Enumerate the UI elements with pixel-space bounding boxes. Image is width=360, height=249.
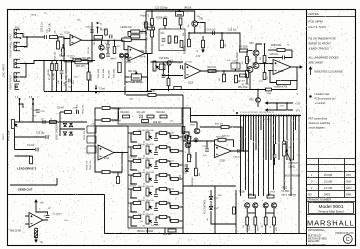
wire pot bottom drop xyxy=(283,156,285,190)
trimmer TRL1 xyxy=(87,126,96,133)
wire fx diode link xyxy=(210,201,212,206)
svg-text:J2: J2 xyxy=(44,13,46,15)
wire fx bottom rail xyxy=(183,185,236,187)
svg-text:R13 100k: R13 100k xyxy=(103,68,105,78)
ground rail xyxy=(44,91,152,93)
svg-text:R4x 4k7 R5x 10k: R4x 4k7 R5x 10k xyxy=(138,200,155,202)
connector pin 24 xyxy=(298,115,300,117)
wire right edge drop xyxy=(298,230,300,234)
supply +Ve arrow xyxy=(35,200,37,204)
svg-text:R41 4k7: R41 4k7 xyxy=(130,158,137,160)
pin x1a stub xyxy=(19,99,21,122)
wire R69 riser xyxy=(62,44,64,48)
svg-text:1 2 3 4 5 6 7 8 9 10 11 12 13: 1 2 3 4 5 6 7 8 9 10 11 12 13 14 15 16 1… xyxy=(240,112,274,114)
svg-text:BLETCHLEY: BLETCHLEY xyxy=(308,236,322,238)
svg-text:+17V: +17V xyxy=(295,103,301,105)
wire trimmer drop xyxy=(235,69,237,71)
junction marker TR16 xyxy=(194,138,198,142)
svg-text:R43 4k7: R43 4k7 xyxy=(130,186,137,188)
EQ band 2 wire xyxy=(131,147,137,156)
EQ block outline xyxy=(128,126,183,228)
transistor TR4 xyxy=(247,67,253,73)
wire lead bottom xyxy=(15,155,32,157)
svg-text:TR4: TR4 xyxy=(252,64,257,66)
capacitor C1B 10u xyxy=(69,79,71,83)
svg-text:g: g xyxy=(185,152,186,154)
EQ band 1 wire xyxy=(131,133,137,142)
svg-text:R5x 470k: R5x 470k xyxy=(238,87,248,89)
EQ band 6 left stub xyxy=(128,202,133,204)
connector pin 9 xyxy=(260,115,262,117)
node IC3A out xyxy=(121,152,123,154)
svg-text:TR11 27k: TR11 27k xyxy=(90,160,92,170)
svg-text:VR6-11: 5k00W: VR6-11: 5k00W xyxy=(137,231,154,233)
resistor R45 on rail xyxy=(182,127,185,134)
bus drop wire 6 xyxy=(253,116,255,196)
resistor R9 rear xyxy=(51,64,54,71)
svg-text:C26 10u: C26 10u xyxy=(270,54,279,56)
wire mid drop x215 xyxy=(214,186,216,234)
svg-text:10k: 10k xyxy=(171,133,174,135)
rear drop c2 xyxy=(61,74,63,91)
title block line a xyxy=(307,201,356,203)
EQ band 1 right stub xyxy=(167,133,171,137)
wire TR17 up rail xyxy=(191,116,198,123)
diode D12 xyxy=(185,168,188,171)
svg-text:ALL UNMARKED DIODES: ALL UNMARKED DIODES xyxy=(309,56,339,60)
EQ band 5 resistor A xyxy=(133,188,141,191)
EQ band 3 wire xyxy=(131,161,137,170)
svg-text:BACK TANDEM: BACK TANDEM xyxy=(284,175,300,178)
wire jack J3 out xyxy=(20,61,44,64)
svg-text:RHYTHM DRIVE: RHYTHM DRIVE xyxy=(125,82,143,84)
transistor TR8 small xyxy=(167,61,171,65)
wire R8d drop xyxy=(117,172,119,176)
wire R12b down xyxy=(151,37,153,44)
FET bottom at 247.2 xyxy=(246,225,248,234)
svg-text:TR17: TR17 xyxy=(190,125,196,127)
svg-text:13.1.88: 13.1.88 xyxy=(324,187,333,190)
svg-text:ARE 1N4007: ARE 1N4007 xyxy=(309,61,324,65)
wire fb right xyxy=(131,39,146,41)
wire bus feed xyxy=(182,108,191,116)
svg-text:NE1B: NE1B xyxy=(31,15,37,17)
bus drop wire 22 xyxy=(298,116,300,230)
svg-text:10k: 10k xyxy=(171,161,174,163)
svg-text:MAIN: MAIN xyxy=(289,159,295,162)
wire R9 out xyxy=(140,31,146,33)
resistor R27 xyxy=(240,74,247,77)
revision table line 5 xyxy=(307,184,356,186)
eq feed wire xyxy=(126,94,148,96)
rear drop a xyxy=(51,61,53,64)
FET TR1B xyxy=(245,203,250,208)
op-amp IC1B xyxy=(128,46,145,61)
svg-text:MID: MID xyxy=(276,227,278,231)
bus drop wire 20 xyxy=(293,116,295,160)
EQ band 6 resistor A xyxy=(133,202,141,205)
resistor R31 lead xyxy=(65,111,72,114)
EQ band 6 right stub xyxy=(167,203,171,207)
wire R68 riser xyxy=(57,37,59,41)
wire R25 drop xyxy=(223,71,225,74)
wire fb right xyxy=(88,22,92,62)
transistor TR15 xyxy=(185,142,191,148)
wire IC2B inv xyxy=(268,70,273,72)
junction rear jacks xyxy=(25,63,27,65)
resistor R47 470k xyxy=(221,126,229,129)
EQ band 3 resistor A xyxy=(133,160,141,163)
EQ band 2 capacitor xyxy=(154,152,158,154)
wire R4 out xyxy=(248,50,253,52)
svg-text:FX: FX xyxy=(180,175,182,178)
svg-text:DRAWING NUMBER: DRAWING NUMBER xyxy=(308,198,332,201)
resistor R10 rear xyxy=(55,64,58,71)
svg-text:Includes inter-: Includes inter- xyxy=(315,93,331,96)
resistor R26 xyxy=(235,75,238,83)
EQ band 5 pot xyxy=(146,188,152,196)
transistor TR17 xyxy=(194,128,200,134)
svg-text:DATE: DATE xyxy=(324,194,331,197)
resistor R12 drop xyxy=(151,19,154,26)
wire R50 link xyxy=(188,144,190,154)
svg-text:INDICATES CLOCKWISE: INDICATES CLOCKWISE xyxy=(315,71,343,74)
wire fet mid link b xyxy=(266,212,274,214)
svg-text:41 TR3: 41 TR3 xyxy=(242,84,250,86)
svg-text:R35 1k5: R35 1k5 xyxy=(163,234,172,236)
svg-text:C30 0.1u: C30 0.1u xyxy=(42,22,44,32)
EQ band 6 pot xyxy=(146,202,152,210)
svg-text:C15 2u2: C15 2u2 xyxy=(228,30,237,32)
pin x2 b xyxy=(32,103,34,105)
svg-text:10u: 10u xyxy=(74,77,77,79)
wire R9 in xyxy=(128,32,131,37)
svg-text:1M: 1M xyxy=(124,37,127,39)
svg-text:PCB: 09P40: PCB: 09P40 xyxy=(309,20,324,24)
svg-text:IC1-2.3- TL072: IC1-2.3- TL072 xyxy=(309,25,327,29)
lead input wire xyxy=(15,121,61,123)
connector pin 23 xyxy=(295,115,297,117)
wire jack J2 riser xyxy=(20,37,27,47)
wire IC1A fb drop xyxy=(63,39,65,62)
resistor R22 mesh xyxy=(263,56,266,63)
resistor R51 10k xyxy=(188,136,191,144)
svg-text:27k: 27k xyxy=(92,124,95,126)
svg-text:R1/2 BALANCE: R1/2 BALANCE xyxy=(236,52,239,68)
lead input wire b xyxy=(60,121,87,123)
svg-text:R68 10k: R68 10k xyxy=(55,51,57,60)
schematic bottom rail xyxy=(105,233,307,235)
resistor R9 lead xyxy=(131,30,140,33)
EQ band 3 right stub xyxy=(167,161,171,165)
pin x2 a xyxy=(32,98,34,100)
inter-pcb connector bus xyxy=(191,115,302,117)
lead mesh h4 xyxy=(15,149,36,151)
resistor R55 xyxy=(246,217,249,225)
wire rail drop b xyxy=(286,103,288,110)
svg-text:5k: 5k xyxy=(143,184,145,186)
node clip xyxy=(114,39,116,41)
svg-text:1k: 1k xyxy=(267,77,269,79)
EQ band 3 wire b xyxy=(156,161,159,166)
node top bus junction xyxy=(151,10,153,12)
revision table line 6 xyxy=(307,190,356,192)
op-amp IC2A xyxy=(185,64,201,79)
svg-text:R14 100k: R14 100k xyxy=(109,70,111,78)
svg-text:TRL3 47k: TRL3 47k xyxy=(77,104,79,114)
svg-text:25.8.88: 25.8.88 xyxy=(324,174,333,177)
revision table line 4 xyxy=(307,177,356,179)
power -17V arrow small xyxy=(202,48,204,52)
wire mesh v2b xyxy=(264,63,266,72)
wire rhythm top rail xyxy=(151,61,184,63)
jack J3 rear xyxy=(14,59,21,67)
svg-text:*: * xyxy=(237,119,238,121)
rear drop a2 xyxy=(51,71,53,91)
svg-text:R2d 2k2: R2d 2k2 xyxy=(157,112,166,114)
svg-text:4k7: 4k7 xyxy=(242,61,244,64)
bus drop wire 16 xyxy=(278,116,280,160)
FET drop at 265.7 xyxy=(265,208,267,217)
EQ band 3 resistor C xyxy=(171,164,179,167)
wire pin stub xyxy=(97,28,99,34)
resistor R19c xyxy=(167,78,170,86)
svg-text:TRL1 27k: TRL1 27k xyxy=(84,130,86,140)
wire C26 in xyxy=(268,57,282,59)
svg-text:5k: 5k xyxy=(143,156,145,158)
svg-text:3k0Hz: 3k0Hz xyxy=(130,198,136,200)
connector pin 6 xyxy=(253,115,255,117)
svg-text:R48 2k2: R48 2k2 xyxy=(222,136,230,138)
model number box xyxy=(309,203,354,214)
EQ band 7 capacitor xyxy=(154,222,158,224)
transistor TR1 xyxy=(192,21,198,27)
EQ band 1 wire b xyxy=(156,133,159,138)
EQ band 1 capacitor xyxy=(154,138,158,140)
wire C26 out xyxy=(285,50,292,58)
svg-text:R67 47K: R67 47K xyxy=(76,66,85,68)
bus drop wire 14 xyxy=(273,116,275,190)
op-amp IC3A xyxy=(98,145,114,160)
diode D8 xyxy=(69,132,72,135)
EQ band 6 resistor B xyxy=(159,202,167,205)
svg-text:TREB: TREB xyxy=(249,225,251,231)
svg-text:From *2: From *2 xyxy=(141,15,150,18)
svg-text:R5A 470k: R5A 470k xyxy=(277,86,288,89)
EQ band 7 right stub xyxy=(167,217,171,221)
title block line c xyxy=(307,227,356,229)
wire TR2-TR3 link xyxy=(255,56,257,63)
junction jack J1 xyxy=(20,37,22,39)
resistor R6 pre xyxy=(105,29,108,35)
svg-text:OUTPUT: OUTPUT xyxy=(289,163,299,165)
wire fx diode chain xyxy=(210,190,212,196)
wire D12 stub xyxy=(186,164,188,168)
rear chan wire xyxy=(44,60,73,62)
resistor R38 27k xyxy=(148,94,156,97)
copyright symbol circle xyxy=(343,235,352,244)
bus drop wire 5 xyxy=(250,116,252,140)
wire mid rail xyxy=(151,89,267,91)
resistor R6B 1M xyxy=(102,107,110,110)
svg-text:PRODUCTS LTD.: PRODUCTS LTD. xyxy=(335,233,354,235)
EQ band 6 wire b xyxy=(156,203,159,208)
capacitor C12 in box xyxy=(162,39,166,41)
lead mesh h2 xyxy=(60,128,85,130)
revision table line 3 xyxy=(307,171,356,173)
pot VR1 rhythm xyxy=(131,72,141,80)
capacitor C5a xyxy=(106,45,110,47)
wire -17V rail xyxy=(266,109,294,111)
resistor R49 xyxy=(195,168,198,176)
EQ band 2 right stub xyxy=(167,147,171,151)
capacitor C20 xyxy=(76,110,78,114)
capacitor C22 xyxy=(36,148,38,152)
pin marker 4 xyxy=(97,27,99,29)
wire C31 v xyxy=(206,141,208,148)
transistor TR16b xyxy=(184,135,188,139)
FET drop at 247.2 xyxy=(246,208,248,217)
svg-text:R4x 4k7 R5x 10k: R4x 4k7 R5x 10k xyxy=(138,158,155,160)
supply cap up xyxy=(36,212,48,215)
trimmer VR2 box xyxy=(159,64,165,70)
pin x1b stub xyxy=(20,104,24,108)
wire R13 drop xyxy=(164,26,166,30)
pin 8 gnd xyxy=(95,92,97,94)
svg-text:4m 4R: 4m 4R xyxy=(141,33,148,35)
clip pair circle b xyxy=(124,53,128,57)
transistor TR6 clip xyxy=(99,45,104,50)
title block line b xyxy=(307,214,356,216)
EQ bottom stub b xyxy=(164,228,166,234)
EQ band 5 rail stub xyxy=(178,192,183,194)
feedback mid wire xyxy=(95,119,102,121)
note bullet xyxy=(309,95,311,97)
lead mesh h3 xyxy=(15,136,46,138)
bus drop wire 12 xyxy=(268,116,270,196)
wire R3 riser xyxy=(188,33,190,39)
wire R64 to IC1A xyxy=(58,37,71,39)
connector pin 16 xyxy=(278,115,280,117)
svg-text:IC3B: IC3B xyxy=(220,160,226,162)
svg-text:R12 100k: R12 100k xyxy=(98,68,100,78)
pot VR10A xyxy=(176,10,184,17)
wire rhythm drop r3 xyxy=(168,86,170,91)
wire R6d right xyxy=(110,153,122,173)
wire clip link xyxy=(107,48,109,53)
wire fx left drop xyxy=(235,190,237,234)
revision col 1 xyxy=(318,159,320,198)
EQ right rail xyxy=(182,126,184,228)
EQ band 7 resistor A xyxy=(133,216,141,219)
FET TR18 xyxy=(271,203,276,208)
pin marker 3 xyxy=(97,22,99,24)
node mesh a xyxy=(264,43,266,45)
svg-text:REAR INPUT: REAR INPUT xyxy=(10,75,13,90)
svg-text:IC1B: IC1B xyxy=(125,59,131,61)
svg-text:R47 47k: R47 47k xyxy=(215,124,224,126)
capacitor C21 xyxy=(46,135,48,139)
svg-text:*8: *8 xyxy=(287,45,289,47)
op-amp IC3B xyxy=(215,145,232,158)
wire TR17 feed xyxy=(196,122,198,128)
svg-text:1k5: 1k5 xyxy=(176,233,179,235)
trimmer T1 box xyxy=(231,63,240,69)
bus drop wire 19 xyxy=(290,116,292,196)
svg-text:C4B: C4B xyxy=(64,81,66,86)
rear drop d xyxy=(65,61,67,92)
wire IC3B fb xyxy=(215,140,219,146)
svg-text:Preamp Main Board: Preamp Main Board xyxy=(319,209,344,213)
transistor TR7 clip xyxy=(99,53,104,58)
svg-text:C25 1k: C25 1k xyxy=(88,46,90,54)
wire mid rail right xyxy=(272,89,298,91)
EQ band 4 resistor A xyxy=(133,174,141,177)
wire fb bottom xyxy=(64,61,75,63)
junction front jacks xyxy=(26,36,28,38)
capacitor C11d xyxy=(140,115,142,119)
supply +Ve wire xyxy=(35,204,37,213)
svg-text:LEVEL: LEVEL xyxy=(289,167,297,169)
svg-text:R4x 4k7 R5x 10k: R4x 4k7 R5x 10k xyxy=(138,144,155,146)
wire TR5 up xyxy=(257,90,259,98)
connector pin 10 xyxy=(263,115,265,117)
FET gate resistor b xyxy=(267,195,274,198)
svg-text:LEAD TANDEM: LEAD TANDEM xyxy=(56,124,59,140)
power +17V arrow xyxy=(266,102,271,104)
wire R49 drop xyxy=(195,152,197,168)
resistor R20 mesh xyxy=(246,57,249,64)
svg-text:C10 10u: C10 10u xyxy=(36,133,45,135)
svg-text:F,B ON TANDEM POTS: F,B ON TANDEM POTS xyxy=(309,37,336,41)
wire mesh v1 xyxy=(246,51,248,57)
pin 7 gnd xyxy=(95,88,97,90)
wire IC2B inputs xyxy=(259,63,273,65)
svg-text:C30 2u0: C30 2u0 xyxy=(233,156,242,158)
svg-text:VR2: VR2 xyxy=(147,37,149,41)
wire R6d loop xyxy=(95,156,102,173)
node R25 top xyxy=(223,70,225,72)
EQ band 7 resistor B xyxy=(159,216,167,219)
svg-text:1n: 1n xyxy=(105,43,107,45)
resistor R53 mid xyxy=(266,88,272,91)
bus drop wire 3 xyxy=(245,116,247,190)
rhythm drop x147 xyxy=(147,56,149,66)
capacitor C18 xyxy=(36,110,40,112)
capacitor C30 xyxy=(44,35,46,39)
lead mesh v x60 xyxy=(59,112,61,136)
jack J4 rear xyxy=(14,73,21,81)
connector pin 22 xyxy=(293,115,295,117)
supply box top xyxy=(8,194,105,196)
wire R43 out xyxy=(285,49,292,51)
resistor R69 bias xyxy=(62,48,65,56)
rear drop b2 xyxy=(56,71,58,91)
bus drop wire 11 xyxy=(265,116,267,160)
svg-text:C15 10u: C15 10u xyxy=(185,62,192,64)
supply box right xyxy=(104,195,106,234)
EQ band 1 pot xyxy=(146,132,152,140)
eq right rail upper xyxy=(182,95,184,126)
lead diode stubs xyxy=(65,128,71,130)
bus drop wire 1 xyxy=(240,116,242,196)
connector pin 19 xyxy=(285,115,287,117)
svg-text:MARSHALL: MARSHALL xyxy=(307,218,355,227)
wire fb rail vertical xyxy=(145,11,147,54)
svg-text:C10 220u: C10 220u xyxy=(159,58,170,60)
bus drop wire 15 xyxy=(275,116,277,144)
EQ band 4 wire b xyxy=(156,175,159,180)
